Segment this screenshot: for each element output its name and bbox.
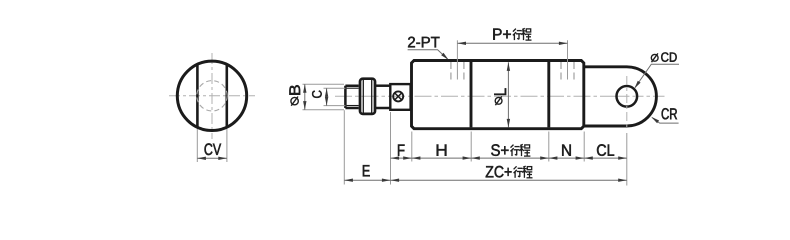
rear port PT dashes (561, 62, 574, 80)
centerline horizontal (end view) (169, 95, 255, 97)
tube/rear-cap joint line (547, 62, 550, 128)
hex nut (360, 79, 375, 114)
CV extension line left (196, 129, 198, 162)
wrench flat left (end view) (196, 65, 199, 126)
wrench flat right (end view) (226, 65, 229, 126)
label ZC+stroke (486, 166, 533, 178)
label CL (597, 144, 614, 156)
eye hole white fill (617, 86, 638, 107)
label CR (662, 108, 677, 119)
CV dimension line (197, 157, 227, 160)
label S+stroke (491, 144, 530, 156)
S dimension line (471, 156, 549, 159)
P extension line left (456, 40, 458, 79)
extension line eye center (CL/ZC end) (626, 133, 628, 186)
extension line H/S (470, 132, 472, 162)
eye hole vertical centerline (626, 76, 628, 130)
2-PT leader line (408, 50, 449, 60)
H dimension line (412, 156, 471, 159)
head/tube joint line (470, 62, 473, 128)
C extension lines (324, 88, 346, 105)
label dia-CD (651, 52, 676, 62)
label C (312, 91, 322, 98)
label dia-B (289, 85, 300, 106)
dia-B extension lines (303, 84, 345, 110)
dia-B dimension line (303, 84, 306, 110)
main axis centerline (335, 95, 665, 97)
label H (437, 145, 447, 156)
extension line at rod tip (E left) (343, 110, 345, 184)
piston rod threaded section (345, 86, 358, 108)
rod section after nut (376, 86, 390, 108)
label E (363, 165, 370, 176)
bore dimension line L (507, 62, 510, 127)
ZC dimension line (391, 179, 627, 182)
label N (562, 145, 571, 156)
label F (398, 145, 405, 156)
front port PT dashes (451, 62, 464, 80)
label 2-PT (408, 37, 439, 48)
P extension line right (567, 40, 569, 79)
centerline vertical (end view) (211, 53, 213, 139)
F dimension line (391, 156, 412, 159)
extension line at gland face (E/F/ZC) (390, 112, 392, 185)
extension line N/CL (583, 132, 585, 162)
CR leader (651, 117, 679, 123)
extension line S/N (548, 132, 550, 162)
part interior fills (360, 61, 656, 129)
front head (gland) and body outline (412, 61, 584, 129)
E dimension line (344, 179, 390, 182)
CV extension line right (226, 129, 228, 162)
CL dimension line (584, 156, 627, 159)
eye hole CD (617, 86, 638, 107)
thread circle dashed (end view) (197, 81, 227, 111)
dia-CD leader (634, 64, 679, 89)
extension line F/H (411, 132, 413, 162)
rod end circle (end view) (177, 61, 246, 130)
label P+stroke (493, 28, 531, 40)
N dimension line (549, 156, 584, 159)
P dimension line (457, 42, 567, 45)
label CV (205, 143, 222, 155)
clevis eye lobe (584, 67, 657, 126)
wrench-flat block (390, 84, 410, 110)
label dia-L (494, 88, 506, 105)
C dimension line (325, 88, 328, 105)
flat mark circle-X (393, 91, 403, 101)
